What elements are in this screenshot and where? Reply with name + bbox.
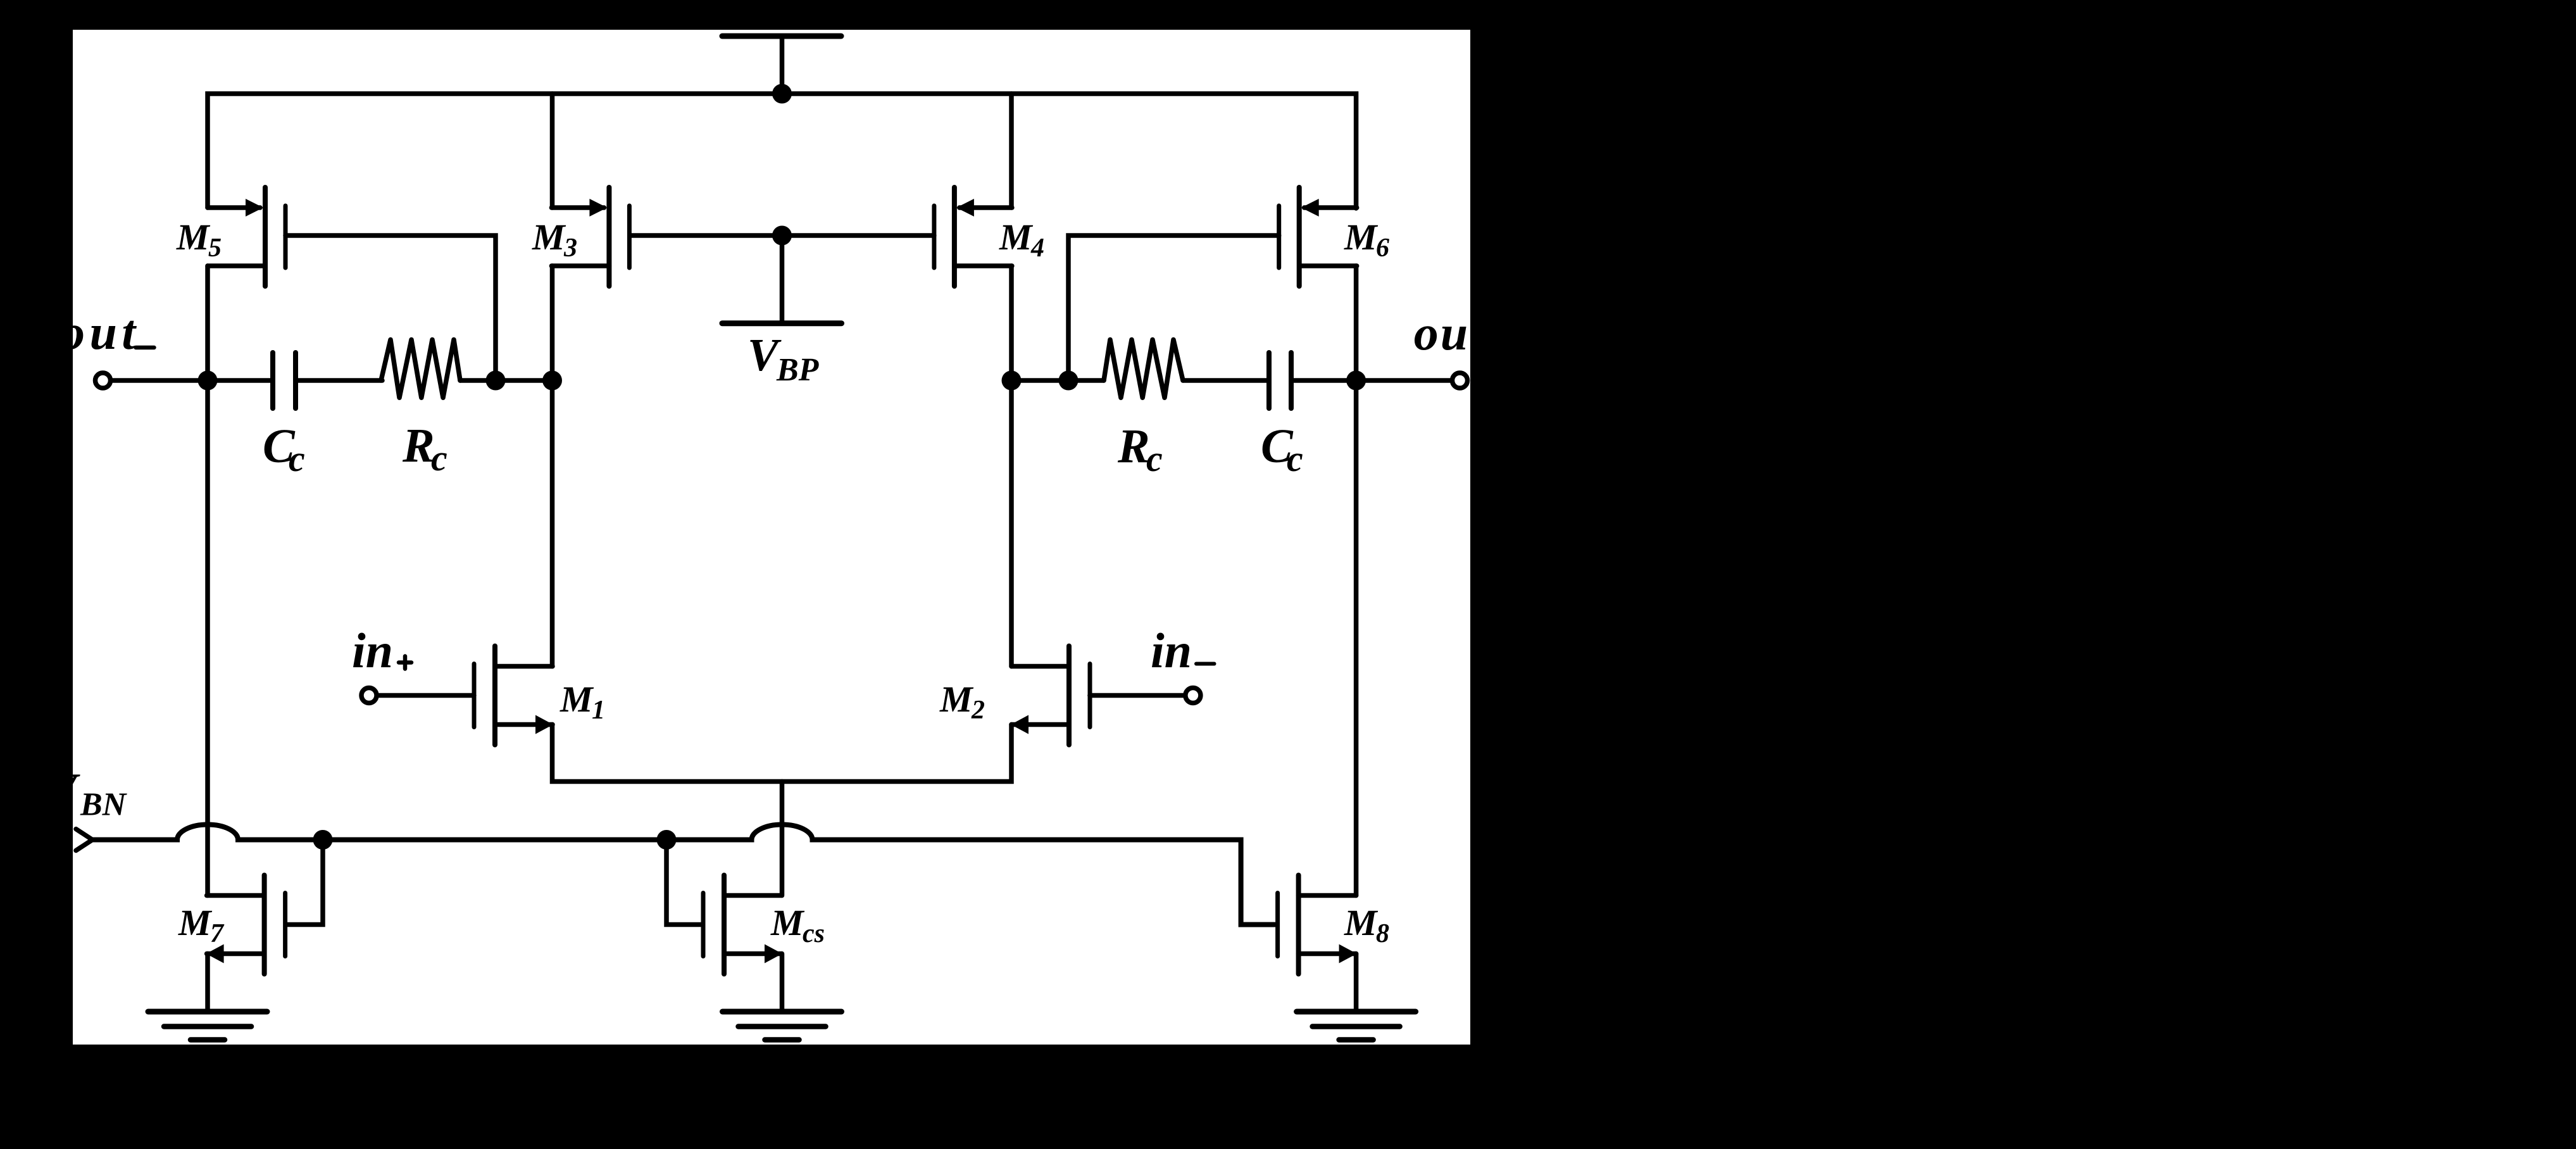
label Mcs (770, 902, 825, 948)
svg-text:in: in (352, 623, 393, 678)
terminal in+ (361, 688, 377, 703)
wire VBN bias line with hops (92, 825, 1275, 925)
wire out+ node to terminal (1356, 378, 1451, 383)
wire M3 M4 gate bus (630, 233, 934, 238)
svg-text:in: in (1151, 623, 1192, 678)
ground right (1297, 1012, 1416, 1040)
transistor M7 (206, 876, 285, 974)
svg-text:8: 8 (1376, 919, 1389, 948)
label M1 (560, 679, 605, 725)
label M2 (939, 679, 985, 725)
svg-text:3: 3 (563, 234, 577, 263)
terminal VBN input chevron (76, 829, 92, 851)
label Rc left (402, 419, 447, 479)
wire M8 source to ground (1354, 954, 1359, 1012)
transistor Mcs (703, 876, 782, 974)
label M5 (176, 217, 222, 263)
svg-text:6: 6 (1376, 234, 1389, 263)
svg-text:M: M (1344, 217, 1379, 258)
wire M5 gate feedback (285, 235, 496, 380)
wire out- node to Cc (208, 378, 270, 383)
label out- (60, 305, 154, 360)
svg-text:M: M (770, 902, 805, 943)
svg-text:c: c (1146, 438, 1163, 479)
svg-text:M: M (560, 679, 594, 720)
node VDD rail junction (772, 84, 792, 104)
node VBN to Mcs gate (657, 830, 677, 850)
wire M7 gate (286, 840, 323, 925)
transistor M3 (551, 187, 629, 286)
label Rc right (1117, 420, 1163, 479)
svg-text:BP: BP (776, 352, 820, 388)
svg-text:c: c (1287, 438, 1303, 479)
transistor M4 (934, 187, 1012, 286)
capacitor Cc left (273, 353, 296, 408)
svg-text:M: M (176, 217, 211, 258)
svg-text:7: 7 (210, 919, 225, 948)
label Cc left (263, 420, 305, 479)
wire Cc to out+ node (1294, 378, 1356, 383)
label VBN (46, 764, 128, 823)
wire in- to M2 gate (1090, 693, 1184, 698)
svg-text:M: M (999, 217, 1034, 258)
svg-text:M: M (939, 679, 974, 720)
power VBP symbol (722, 235, 842, 323)
ground center (723, 1012, 842, 1040)
node M6 gate tap (1059, 371, 1079, 391)
node stage1 right / M4 drain (1002, 371, 1022, 391)
wire Rc to stage1 node (460, 378, 553, 383)
wire Mcs source to ground (780, 954, 785, 1012)
label in- (1151, 623, 1215, 678)
node out- / M5 drain (198, 371, 218, 391)
wire Cc to Rc (298, 378, 382, 383)
label M8 (1344, 902, 1389, 948)
resistor Rc right (1104, 340, 1183, 398)
transistor M8 (1278, 876, 1357, 974)
svg-text:M: M (178, 902, 213, 943)
wire tail down to Mcs (780, 782, 785, 896)
wire rail to M4 source (1009, 94, 1014, 208)
label Cc right (1261, 420, 1303, 479)
svg-text:1: 1 (592, 696, 605, 725)
transistor M5 (208, 187, 285, 286)
label VBP (747, 329, 820, 388)
svg-text:c: c (289, 438, 305, 479)
node out+ / M6 drain (1346, 371, 1366, 391)
wire rail to M3 source (550, 94, 555, 208)
svg-text:2: 2 (971, 696, 985, 725)
wire out- terminal to node (113, 378, 208, 383)
svg-text:5: 5 (208, 234, 222, 263)
wire Mcs gate (666, 840, 703, 925)
label out+ (1414, 305, 1510, 367)
wire M5 drain to M7 drain (205, 266, 210, 896)
wire M4 drain to M2 drain (1009, 266, 1014, 667)
node VBP junction (772, 226, 792, 246)
terminal in- (1185, 688, 1201, 703)
wire VDD top rail with corner drops (208, 94, 1356, 208)
wire in+ to M1 gate (378, 693, 474, 698)
terminal out- (96, 373, 111, 388)
label M7 (178, 902, 225, 948)
svg-text:c: c (431, 437, 447, 479)
terminal out+ (1453, 373, 1468, 388)
resistor Rc left (381, 340, 460, 398)
wire M6 drain to M8 drain (1354, 266, 1359, 896)
svg-text:R: R (402, 419, 435, 472)
label in+ (352, 623, 411, 678)
transistor M1 (474, 646, 553, 745)
svg-text:4: 4 (1030, 234, 1044, 263)
wire M3 drain to M1 drain (550, 266, 555, 667)
wire M7 source to ground (205, 954, 210, 1012)
svg-text:cs: cs (803, 919, 825, 948)
wire stage1 right node to Rc (1011, 378, 1104, 383)
node VBN to M7 gate (313, 830, 333, 850)
capacitor Cc right (1269, 353, 1291, 408)
power VDD symbol (722, 36, 841, 94)
node stage1 left / M3 drain (542, 371, 562, 391)
svg-text:BN: BN (80, 787, 128, 823)
transistor M6 (1279, 187, 1357, 286)
label M6 (1344, 217, 1389, 263)
label M4 (999, 217, 1044, 263)
wire differential pair sources (553, 725, 1012, 782)
svg-text:M: M (532, 217, 566, 258)
node Rc / M5 gate tap (486, 371, 506, 391)
svg-text:M: M (1344, 902, 1379, 943)
transistor M2 (1011, 646, 1090, 745)
wire M6 gate feedback (1068, 235, 1279, 380)
svg-text:R: R (1117, 420, 1150, 473)
label M3 (532, 217, 577, 263)
wire Rc to Cc right (1183, 378, 1266, 383)
ground left (148, 1012, 267, 1040)
